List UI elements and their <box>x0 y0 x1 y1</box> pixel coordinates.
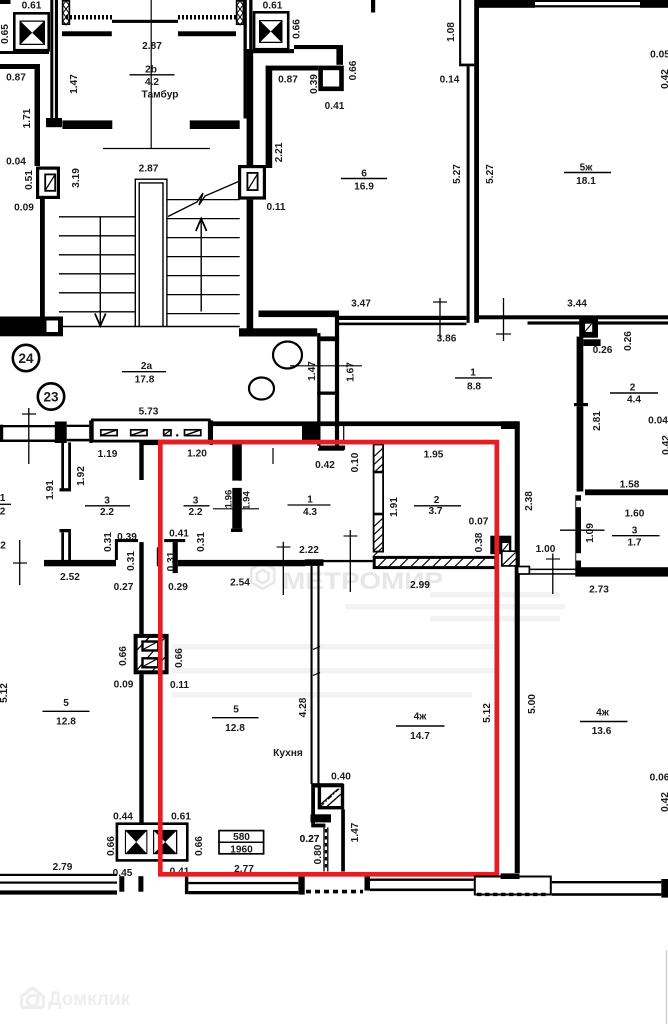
band left window lines <box>0 425 55 427</box>
balcony tick <box>311 824 325 828</box>
dim line x350 <box>349 530 351 592</box>
window band bottom right <box>178 31 236 36</box>
svg-text:0.42: 0.42 <box>315 460 335 471</box>
svg-text:2: 2 <box>630 383 636 394</box>
svg-text:0.87: 0.87 <box>278 75 298 86</box>
svg-text:0.27: 0.27 <box>114 582 134 593</box>
kitchen corner wall <box>311 814 332 822</box>
svg-text:0.66: 0.66 <box>174 648 185 668</box>
svg-text:0.09: 0.09 <box>14 203 34 214</box>
bottom pier 3 <box>185 877 188 895</box>
dim line x283 <box>282 542 284 595</box>
svg-text:1: 1 <box>0 493 6 504</box>
junction step right <box>164 539 185 542</box>
left wall lower x62-70 <box>61 532 64 560</box>
door lines right <box>530 569 576 571</box>
svg-text:0.06: 0.06 <box>650 773 668 784</box>
svg-text:0.42: 0.42 <box>660 69 668 89</box>
tambour floor wall left seg <box>62 120 112 129</box>
bottom sill b mid <box>188 882 298 884</box>
bottom threshold box <box>475 877 551 895</box>
bottom sill c right1 <box>370 889 474 892</box>
tambour floor wall right seg <box>190 120 240 129</box>
window band bottom left <box>62 31 112 36</box>
wall below U1 thin <box>0 51 49 54</box>
svg-text:1960: 1960 <box>230 845 253 856</box>
hatch piece right of V5 <box>502 551 517 566</box>
svg-text:2.2: 2.2 <box>188 507 202 518</box>
wall bottom-left of stairs <box>0 317 63 337</box>
dim line x273 <box>272 448 274 464</box>
stair down arrow <box>99 217 101 325</box>
thin wall line 319-372 <box>320 560 373 562</box>
svg-text:0.44: 0.44 <box>113 812 133 823</box>
bottom pier 4 <box>298 877 304 895</box>
tick niche 1.08 <box>459 64 474 67</box>
wall left of tambour x50-58 <box>50 0 53 119</box>
stair treads right flight <box>167 199 240 201</box>
balcony left jamb <box>311 788 315 824</box>
bottom right sill a <box>552 881 662 883</box>
svg-text:0.27: 0.27 <box>300 834 320 845</box>
svg-text:18.1: 18.1 <box>576 176 596 187</box>
balcony wall x341-345 <box>341 809 345 871</box>
dim line x503 <box>503 298 505 341</box>
svg-text:5: 5 <box>233 705 239 716</box>
stair up arrow <box>200 219 202 312</box>
door jamb tick b <box>60 529 72 532</box>
stairwell right wall lower <box>247 200 254 333</box>
vent shaft V2 <box>240 167 265 198</box>
room2 wall x577 <box>577 337 584 403</box>
svg-text:1.60: 1.60 <box>625 509 645 520</box>
band divider x343 <box>343 426 345 441</box>
svg-text:0.14: 0.14 <box>440 75 460 86</box>
room3 left dims line <box>213 508 259 510</box>
vent box V4 <box>579 318 598 338</box>
svg-text:1.91: 1.91 <box>45 480 56 500</box>
wall y45 right of U2 <box>294 45 343 49</box>
elevator U2 top-center <box>254 12 288 49</box>
svg-text:3: 3 <box>193 496 199 507</box>
svg-text:12.8: 12.8 <box>56 717 76 728</box>
shaft sill line <box>318 448 344 450</box>
wall bar x139 down <box>139 542 143 634</box>
svg-text:1.7: 1.7 <box>627 538 641 549</box>
svg-text:2: 2 <box>0 507 6 518</box>
svg-text:0.66: 0.66 <box>348 60 359 80</box>
T-wall top bar <box>305 559 324 566</box>
svg-text:0.38: 0.38 <box>474 532 485 552</box>
door tick x233 <box>231 529 243 532</box>
watermark row 1 <box>345 604 565 610</box>
svg-text:1.91: 1.91 <box>389 497 400 517</box>
svg-text:1: 1 <box>307 494 313 505</box>
svg-text:0.61: 0.61 <box>171 812 191 823</box>
svg-text:3.7: 3.7 <box>428 506 442 517</box>
wall x233 notch <box>234 481 239 488</box>
svg-text:0.26: 0.26 <box>593 345 613 356</box>
elevator U1 top-left <box>14 13 48 50</box>
svg-text:3: 3 <box>632 526 638 537</box>
svg-text:17.8: 17.8 <box>135 375 155 386</box>
room3r bottom wall <box>581 567 668 576</box>
svg-text:13.6: 13.6 <box>592 726 612 737</box>
band window A <box>67 425 90 427</box>
shaft divider y391 <box>317 392 339 395</box>
window band 5zh bottom <box>528 321 668 324</box>
wall between room3s x233 <box>232 444 242 481</box>
svg-text:0.87: 0.87 <box>6 73 26 84</box>
dim line 1.09 <box>560 529 605 531</box>
svg-text:3.86: 3.86 <box>437 334 457 345</box>
watermark row 2 <box>430 616 560 622</box>
svg-text:5.27: 5.27 <box>452 164 463 184</box>
axis circle 24 <box>13 345 39 371</box>
svg-text:5.12: 5.12 <box>0 683 10 703</box>
svg-text:0.51: 0.51 <box>24 170 35 190</box>
svg-text:14.7: 14.7 <box>410 731 430 742</box>
svg-text:0.66: 0.66 <box>292 19 303 39</box>
bottom threshold dashes <box>477 893 549 896</box>
svg-text:0.10: 0.10 <box>350 452 361 472</box>
junction wall right horiz <box>178 560 305 566</box>
svg-text:1.71: 1.71 <box>22 108 33 128</box>
hand circle a <box>273 342 302 369</box>
svg-text:5: 5 <box>63 698 69 709</box>
vent box V3 with X <box>136 636 167 672</box>
window band room6 <box>339 316 467 320</box>
band pier x302 <box>302 424 320 441</box>
band pier B <box>89 420 92 443</box>
hatched wall upper <box>374 445 384 472</box>
svg-text:2.99: 2.99 <box>410 580 430 591</box>
svg-text:3: 3 <box>104 496 110 507</box>
svg-text:0.42: 0.42 <box>660 792 668 812</box>
stair treads left flight <box>59 216 136 218</box>
svg-text:2.54: 2.54 <box>230 578 250 589</box>
svg-text:2: 2 <box>434 495 440 506</box>
svg-text:2.2: 2.2 <box>100 507 114 518</box>
dim line x552 <box>552 554 554 595</box>
kitchen wall ticks <box>313 647 320 650</box>
svg-text:2.81: 2.81 <box>592 411 603 431</box>
door tick room2 <box>574 403 588 406</box>
wall top-left corner stub <box>0 0 11 4</box>
svg-text:1.47: 1.47 <box>350 822 361 842</box>
centerline tambour <box>150 0 152 148</box>
svg-text:2.21: 2.21 <box>274 142 285 162</box>
svg-text:4.28: 4.28 <box>298 697 309 717</box>
bottom sill b left <box>0 882 117 884</box>
bottom sill b right1 <box>370 879 474 881</box>
svg-text:5.73: 5.73 <box>139 407 159 418</box>
bottom thick c mid <box>188 891 298 894</box>
stair left wall x40-45 <box>40 199 45 317</box>
svg-text:0.66: 0.66 <box>194 836 205 856</box>
bottom right pier <box>661 879 668 898</box>
left wall below band x62-70 <box>61 442 64 488</box>
vent box V5 <box>490 536 511 555</box>
svg-text:0.80: 0.80 <box>313 844 324 864</box>
stair landing bottom line <box>59 326 240 328</box>
wall x575 gap b <box>576 553 584 560</box>
wall y64 left <box>0 64 38 69</box>
hand circle b <box>249 378 274 400</box>
wall x139 below v3 <box>139 674 143 822</box>
svg-text:1.08: 1.08 <box>446 22 457 42</box>
svg-text:0.41: 0.41 <box>169 529 189 540</box>
svg-text:1.67: 1.67 <box>345 362 356 382</box>
window band top dotted right <box>178 15 236 20</box>
top wall right thick seg2 <box>640 0 668 8</box>
svg-text:2: 2 <box>0 541 6 552</box>
door jamb tick a <box>60 488 72 491</box>
svg-text:4.3: 4.3 <box>303 507 317 518</box>
wall line x466 down <box>467 66 470 323</box>
svg-text:1.20: 1.20 <box>187 449 207 460</box>
svg-text:0.05: 0.05 <box>650 50 668 61</box>
svg-text:5.27: 5.27 <box>485 164 496 184</box>
watermark row 0 <box>430 592 560 598</box>
bottom wall stub right of red <box>501 873 520 879</box>
niche box 0.39 <box>321 68 342 89</box>
window strip diamond left <box>63 1 70 24</box>
svg-text:0.04: 0.04 <box>6 157 26 168</box>
door threshold right <box>518 567 530 575</box>
svg-text:1.94: 1.94 <box>242 491 253 510</box>
window strip diamond right <box>237 1 244 24</box>
wall column x474 top <box>474 0 479 323</box>
svg-text:2a: 2a <box>141 361 153 372</box>
dim line x28 vertical <box>28 408 30 464</box>
svg-text:0.04: 0.04 <box>648 416 668 427</box>
room2 wall step <box>583 339 600 346</box>
hatch box 2 <box>131 430 147 436</box>
band pier A <box>55 422 67 444</box>
band top line right <box>213 421 517 426</box>
dim line y365.8 <box>290 365 362 367</box>
wall x575 gap a <box>576 501 584 508</box>
svg-text:4ж: 4ж <box>414 712 428 723</box>
stair break line diagonal <box>168 171 264 217</box>
svg-text:24: 24 <box>18 351 34 366</box>
svg-text:0.11: 0.11 <box>170 680 189 691</box>
elevator U3b <box>153 830 177 854</box>
top wall right thick seg1 <box>475 0 535 8</box>
svg-text:0.41: 0.41 <box>325 101 345 112</box>
svg-text:23: 23 <box>43 390 59 405</box>
svg-text:0.09: 0.09 <box>114 680 134 691</box>
svg-text:4ж: 4ж <box>596 708 610 719</box>
svg-text:1: 1 <box>470 368 476 379</box>
right edge faint line <box>666 950 667 1024</box>
corridor door band outer <box>92 420 209 441</box>
svg-text:1.95: 1.95 <box>424 450 444 461</box>
shaft left line x317 <box>317 333 320 446</box>
room2 bottom wall <box>585 489 668 495</box>
bottom lineA left <box>0 874 117 876</box>
tambour floor wall corner <box>46 118 62 127</box>
balcony door dashed <box>306 890 363 894</box>
balcony dashed jamb <box>323 827 325 871</box>
svg-text:4.4: 4.4 <box>627 395 641 406</box>
svg-text:2.87: 2.87 <box>142 41 162 52</box>
bottom pier 1 <box>119 876 124 892</box>
svg-text:3.44: 3.44 <box>567 299 587 310</box>
svg-text:0.11: 0.11 <box>266 202 285 213</box>
window band 5zh top <box>478 315 668 319</box>
wall x34-40 left <box>35 64 41 166</box>
axis circle 23 <box>38 383 64 409</box>
thin line x459 top <box>459 0 461 64</box>
band dot <box>176 434 178 436</box>
svg-text:1.92: 1.92 <box>76 466 87 486</box>
svg-text:0.31: 0.31 <box>126 551 137 571</box>
svg-text:2.73: 2.73 <box>589 585 609 596</box>
svg-text:16.9: 16.9 <box>354 182 374 193</box>
svg-text:1.19: 1.19 <box>98 449 118 460</box>
stairwell right wall upper <box>247 52 254 165</box>
svg-text:2.79: 2.79 <box>53 862 73 873</box>
svg-text:0.61: 0.61 <box>263 1 283 12</box>
svg-text:1.00: 1.00 <box>536 544 556 555</box>
watermark row 5 <box>172 692 472 698</box>
svg-text:580: 580 <box>233 832 250 843</box>
long wall x514 <box>515 421 520 873</box>
bottom right sill b <box>552 893 662 896</box>
svg-text:5.00: 5.00 <box>527 694 538 714</box>
bottom pier 5 <box>365 877 371 891</box>
watermark hexagon logo <box>251 563 274 589</box>
elevator U3a <box>125 830 147 854</box>
shaft divider y336 <box>317 336 339 341</box>
svg-text:3.47: 3.47 <box>351 299 371 310</box>
entrance door line <box>112 20 178 23</box>
kitchen wall bottom cap <box>311 783 343 787</box>
kitchen wall double x310-319 <box>311 566 313 784</box>
hatched wall lower <box>374 514 384 551</box>
watermark row 4 <box>172 668 500 674</box>
svg-text:0.39: 0.39 <box>309 74 320 94</box>
svg-text:0.66: 0.66 <box>118 646 129 666</box>
band pier C <box>210 420 214 445</box>
svg-text:0.07: 0.07 <box>469 517 489 528</box>
hatch box 1 <box>101 430 117 436</box>
shaft cap below red <box>319 446 345 450</box>
shaft right line x335 <box>335 317 339 446</box>
junction step left <box>115 539 138 542</box>
svg-text:4.2: 4.2 <box>145 77 159 88</box>
watermark row 3 <box>172 644 500 650</box>
wall below room6 left <box>259 311 340 318</box>
wall corner x336 down <box>336 45 343 65</box>
hatched balcony box <box>319 786 342 808</box>
wall below U2 <box>245 49 294 53</box>
lobby wall y65 horizontal <box>272 66 318 71</box>
svg-text:0.26: 0.26 <box>623 331 634 351</box>
svg-text:1.47: 1.47 <box>307 361 318 381</box>
dim line x19 vertical <box>19 540 21 585</box>
band left wall pier x140 <box>139 442 143 481</box>
svg-text:0.31: 0.31 <box>196 532 207 552</box>
room2 wall x577 lower <box>577 406 584 491</box>
svg-text:2.38: 2.38 <box>524 491 535 511</box>
svg-text:1.58: 1.58 <box>620 480 640 491</box>
red highlight rectangle <box>160 442 497 874</box>
label line 2b <box>130 74 175 76</box>
svg-text:0.29: 0.29 <box>168 582 188 593</box>
junction bar under red <box>157 547 160 566</box>
bottom pier 2 <box>138 876 143 892</box>
svg-text:0.65: 0.65 <box>0 24 11 44</box>
window band top dotted left <box>66 15 112 20</box>
svg-text:2b: 2b <box>145 65 157 76</box>
svg-text:1.96: 1.96 <box>224 490 235 509</box>
corridor top wall <box>239 328 317 336</box>
band bottom left black <box>140 442 160 446</box>
lobby wall x265-272 <box>266 66 273 168</box>
svg-text:0.40: 0.40 <box>331 772 351 783</box>
wall x233 mid <box>232 488 242 529</box>
wall column mid white <box>374 472 384 513</box>
svg-text:Кухня: Кухня <box>273 748 303 759</box>
corridor bottom wall right corner <box>501 421 517 429</box>
svg-text:0.31: 0.31 <box>103 532 114 552</box>
hatched band horizontal <box>374 557 496 567</box>
wall right of tambour x243-252 <box>244 0 247 119</box>
svg-text:1.47: 1.47 <box>69 74 80 94</box>
svg-text:0.42: 0.42 <box>661 435 668 455</box>
wall stub x371 top <box>371 0 375 13</box>
svg-text:8.8: 8.8 <box>467 382 481 393</box>
svg-text:2.87: 2.87 <box>139 164 159 175</box>
wall x139 above v3 <box>139 633 143 635</box>
svg-text:1.09: 1.09 <box>585 523 596 543</box>
dim line 2b horizontal <box>103 148 210 150</box>
svg-text:0.61: 0.61 <box>22 1 42 12</box>
svg-text:2.52: 2.52 <box>60 572 80 583</box>
svg-text:2.22: 2.22 <box>299 545 319 556</box>
elevator pair box <box>117 824 187 861</box>
hatch box 4 <box>185 430 201 436</box>
junction bar right <box>173 542 178 573</box>
top wall window double <box>535 0 640 2</box>
dim line 3.86 vertical <box>439 298 441 338</box>
svg-text:5.12: 5.12 <box>482 703 493 723</box>
spec box 580 1960 <box>219 831 264 854</box>
stair core rails <box>134 179 136 327</box>
junction wall left horiz <box>44 560 116 566</box>
svg-text:0.66: 0.66 <box>106 836 117 856</box>
hatch box 3 small <box>164 430 171 436</box>
svg-text:3.19: 3.19 <box>71 168 82 188</box>
svg-text:Тамбур: Тамбур <box>142 89 179 101</box>
bottom thick c left <box>0 890 117 894</box>
svg-text:Домклик: Домклик <box>48 989 131 1010</box>
vent shaft V1 <box>38 168 59 197</box>
domclick logo <box>22 988 44 1008</box>
svg-text:12.8: 12.8 <box>225 723 245 734</box>
wall x575 with gaps <box>575 495 581 576</box>
